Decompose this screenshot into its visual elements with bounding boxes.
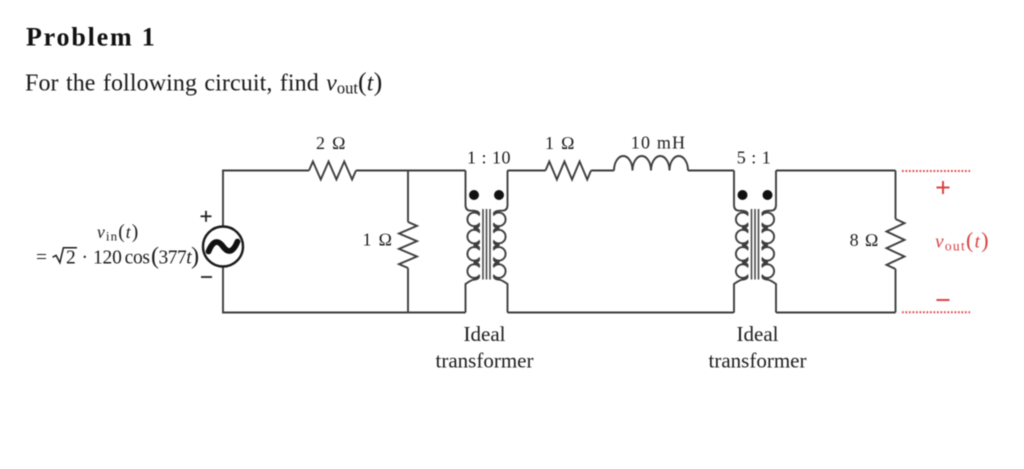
- svg-text:120: 120: [93, 247, 122, 268]
- svg-text:cos: cos: [125, 247, 150, 268]
- svg-text:8 Ω: 8 Ω: [850, 230, 880, 250]
- svg-text:1 Ω: 1 Ω: [363, 230, 394, 250]
- svg-text:(377t): (377t): [151, 243, 199, 269]
- svg-text:vin(t): vin(t): [97, 222, 139, 244]
- svg-text:1 Ω: 1 Ω: [545, 133, 576, 153]
- svg-text:vout(t): vout(t): [935, 228, 990, 254]
- svg-text:Problem 1: Problem 1: [26, 23, 157, 52]
- svg-text:5 : 1: 5 : 1: [737, 148, 772, 168]
- svg-text:10 mH: 10 mH: [631, 133, 687, 153]
- svg-text:Ideal: Ideal: [737, 322, 779, 346]
- svg-text:2 Ω: 2 Ω: [316, 133, 347, 153]
- svg-text:·: ·: [81, 247, 88, 268]
- svg-text:transformer: transformer: [709, 349, 807, 373]
- svg-text:For the following circuit, fin: For the following circuit, find vout(t): [25, 68, 382, 98]
- svg-text:=: =: [36, 247, 47, 268]
- svg-text:2: 2: [66, 247, 76, 268]
- svg-text:transformer: transformer: [436, 349, 534, 373]
- svg-text:1 : 10: 1 : 10: [467, 148, 511, 168]
- svg-text:Ideal: Ideal: [464, 322, 506, 346]
